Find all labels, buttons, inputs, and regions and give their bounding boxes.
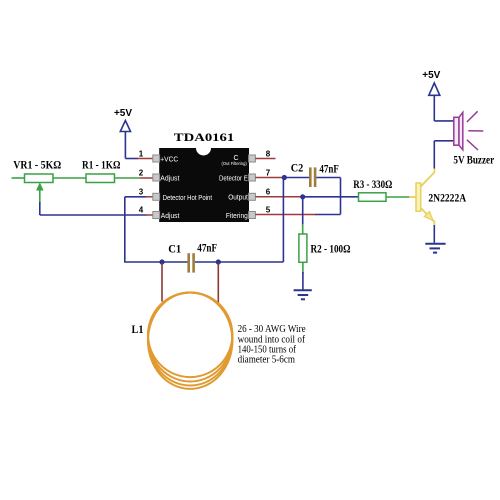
wire pin3 to loop — [124, 197, 188, 262]
transistor Q1 2N2222A — [409, 168, 466, 227]
capacitor C2 — [284, 161, 340, 188]
svg-text:R2 - 100Ω: R2 - 100Ω — [311, 242, 351, 256]
pin 5 lead — [255, 214, 316, 216]
pin 3 lead — [146, 196, 154, 198]
svg-text:Detector Hot Point: Detector Hot Point — [163, 195, 213, 202]
coil lead left — [161, 263, 163, 302]
svg-text:+VCC: +VCC — [160, 156, 178, 163]
IC pads right — [249, 155, 256, 219]
ground (emitter) — [425, 244, 445, 253]
capacitor C1 — [168, 241, 283, 273]
potentiometer VR1 — [12, 158, 62, 204]
svg-text:Fitering: Fitering — [226, 213, 248, 220]
+5V power symbol (left) — [114, 108, 132, 159]
resistor R3 — [353, 177, 410, 202]
node coil left — [159, 259, 164, 264]
svg-text:R3 - 330Ω: R3 - 330Ω — [353, 177, 392, 191]
wire C2 to pin5 — [315, 178, 341, 215]
svg-text:6: 6 — [266, 188, 271, 197]
svg-text:2N2222A: 2N2222A — [428, 190, 466, 204]
svg-text:R1 - 1KΩ: R1 - 1KΩ — [82, 158, 121, 172]
svg-text:Detector E: Detector E — [219, 176, 248, 183]
wire emitter down to ground — [433, 225, 435, 243]
coil description text — [238, 323, 306, 366]
wire wiper to pin4 — [40, 202, 147, 215]
svg-text:L1: L1 — [132, 322, 144, 336]
resistor R2 — [299, 197, 351, 290]
pin 6 lead — [255, 196, 302, 198]
svg-text:+5V: +5V — [114, 108, 132, 119]
svg-text:3: 3 — [139, 188, 144, 197]
svg-text:VR1 - 5KΩ: VR1 - 5KΩ — [13, 158, 61, 172]
svg-text:(Out Filtering): (Out Filtering) — [222, 161, 248, 166]
svg-text:2: 2 — [139, 169, 144, 178]
svg-text:7: 7 — [266, 169, 271, 178]
pin 1 lead — [137, 158, 153, 160]
svg-text:5: 5 — [266, 205, 271, 214]
IC U1 TDA0161 — [159, 130, 249, 222]
svg-text:Output: Output — [228, 194, 248, 201]
svg-text:47nF: 47nF — [319, 162, 338, 176]
node coil right — [216, 259, 221, 264]
pin 7 lead — [255, 177, 284, 179]
node pin7 junction — [282, 175, 287, 180]
inductor L1 coil — [148, 293, 232, 389]
ground (R2) — [294, 290, 312, 299]
wire loop right up to pin7 — [282, 178, 284, 263]
svg-text:TDA0161: TDA0161 — [174, 130, 235, 144]
svg-text:4: 4 — [139, 206, 144, 215]
wire pin1 — [125, 158, 138, 160]
IC pads left — [153, 155, 160, 219]
svg-text:C1: C1 — [168, 242, 181, 256]
wire collector up to buzzer — [433, 141, 435, 169]
node pin6 junction — [300, 194, 305, 199]
wire buzzer bottom terminal — [434, 140, 454, 142]
svg-text:Adjust: Adjust — [161, 213, 180, 220]
pin 4 lead — [146, 214, 154, 216]
buzzer LS1 — [453, 111, 494, 166]
svg-text:47nF: 47nF — [197, 241, 217, 255]
svg-text:+5V: +5V — [422, 70, 440, 81]
svg-text:Adjust: Adjust — [160, 176, 179, 183]
svg-text:C2: C2 — [291, 161, 304, 175]
wire to buzzer top terminal — [434, 120, 454, 122]
svg-text:8: 8 — [266, 149, 271, 158]
coil lead right — [217, 263, 219, 303]
pin 8 lead (stub) — [255, 158, 275, 160]
svg-text:5V Buzzer: 5V Buzzer — [453, 153, 494, 167]
resistor R1 — [53, 158, 140, 183]
svg-text:1: 1 — [139, 150, 144, 159]
wire pin6 to R3 — [303, 196, 359, 198]
+5V power symbol (right) — [422, 70, 440, 121]
pin 2 lead — [140, 177, 153, 179]
svg-text:diameter 5-6cm: diameter 5-6cm — [238, 354, 296, 366]
